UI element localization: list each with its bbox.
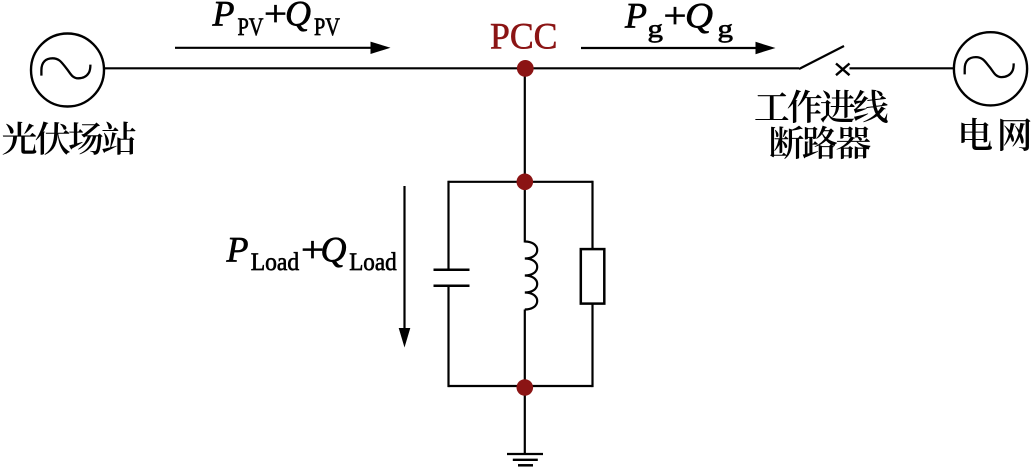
svg-text:g: g xyxy=(718,14,734,43)
svg-text:P: P xyxy=(624,0,647,36)
wire: load bottom rail xyxy=(449,385,593,387)
breaker: open switch blade xyxy=(799,46,844,69)
svg-text:Q: Q xyxy=(285,0,311,34)
arrow: PV power flow direction xyxy=(175,47,372,49)
svg-text:P: P xyxy=(226,230,249,270)
svg-text:Load: Load xyxy=(349,247,397,276)
node: load top junction dot xyxy=(517,174,534,191)
label P_PV+Q_PV xyxy=(212,0,341,41)
label P_Load+Q_Load xyxy=(226,230,397,276)
label P_g+Q_g xyxy=(624,0,733,43)
node PCC junction dot xyxy=(517,60,534,77)
svg-text:g: g xyxy=(648,14,664,43)
label 工作进线 (incoming line) xyxy=(755,90,888,123)
wire: resistor branch bottom xyxy=(591,304,593,388)
label 光伏场站 (PV plant) xyxy=(3,122,136,155)
ground symbol xyxy=(507,454,543,465)
svg-text:PCC: PCC xyxy=(490,17,558,58)
wire: load top rail xyxy=(449,181,593,183)
arrow: load power flow (downward) xyxy=(403,186,405,331)
svg-text:Q: Q xyxy=(685,0,713,36)
wire: capacitor branch bottom xyxy=(447,287,449,387)
arrow: grid power flow direction xyxy=(581,47,757,49)
svg-text:P: P xyxy=(212,0,235,34)
AC source: grid (电网) xyxy=(954,32,1027,105)
inductor L coil xyxy=(525,242,537,310)
wire: breaker to grid source xyxy=(850,67,955,69)
wire: PV source to breaker xyxy=(104,67,799,69)
svg-text:Load: Load xyxy=(251,247,300,276)
svg-text:PV: PV xyxy=(314,12,340,41)
wire: inductor branch bottom xyxy=(524,310,526,387)
label 电网 (grid) xyxy=(961,118,1030,151)
label 断路器 (circuit breaker) xyxy=(770,126,870,159)
svg-text:PV: PV xyxy=(238,12,264,41)
wire: PCC down to load xyxy=(524,68,526,182)
svg-text:+: + xyxy=(664,0,687,36)
resistor R xyxy=(581,249,605,304)
wire: capacitor branch top xyxy=(447,181,449,269)
AC source: PV plant (光伏场站) xyxy=(31,34,104,107)
svg-text:Q: Q xyxy=(321,230,347,270)
wire: inductor branch top xyxy=(524,182,526,243)
wire: bottom node to ground xyxy=(524,388,526,455)
node: load bottom junction dot xyxy=(517,379,534,396)
svg-text:+: + xyxy=(264,0,287,34)
capacitor C xyxy=(434,269,470,272)
breaker: X contact mark xyxy=(836,64,850,76)
wire: resistor branch top xyxy=(591,181,593,250)
